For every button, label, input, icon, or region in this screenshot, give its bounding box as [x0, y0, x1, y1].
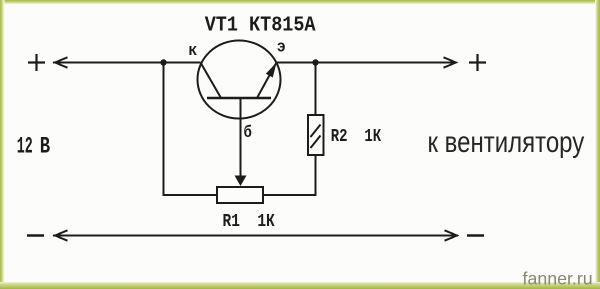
wiper arrow (base to R1) [235, 176, 247, 187]
arrow head left (bottom bus) [53, 230, 68, 240]
arrow head right (bottom bus) [445, 230, 460, 240]
svg-text:fanner.ru: fanner.ru [523, 269, 593, 289]
svg-text:К: К [189, 44, 198, 60]
wire emitter bus (to + right) [277, 62, 457, 64]
terminal + (right) [469, 54, 486, 71]
svg-text:R1 1К: R1 1К [223, 210, 275, 231]
svg-text:VT1 КТ815А: VT1 КТ815А [205, 13, 316, 36]
wire bottom bus (minus rail) [53, 235, 458, 237]
junction dot left [160, 59, 166, 65]
svg-text:В: В [40, 134, 50, 160]
wire top bus left (+ to collector) [53, 62, 201, 64]
transistor VT1 [198, 41, 281, 178]
terminal − (bottom right) [467, 234, 484, 236]
svg-text:R2 1К: R2 1К [331, 125, 381, 146]
junction dot right [312, 59, 318, 65]
svg-text:12: 12 [17, 133, 33, 160]
svg-text:б: б [244, 123, 252, 143]
wire left vertical (junction to R1 left) [164, 63, 218, 196]
resistor R1 (potentiometer) [217, 187, 263, 203]
arrow head left (top bus) [53, 57, 68, 67]
svg-text:Э: Э [277, 41, 285, 57]
terminal − (bottom left) [27, 234, 44, 236]
resistor R2 [308, 115, 324, 155]
svg-text:к вентилятору: к вентилятору [428, 124, 585, 158]
terminal + (left) [28, 54, 45, 71]
arrow head right (top bus) [444, 57, 459, 67]
wire emitter junction down to R2 [315, 63, 317, 116]
wire R2 bottom to R1 right [263, 155, 316, 195]
